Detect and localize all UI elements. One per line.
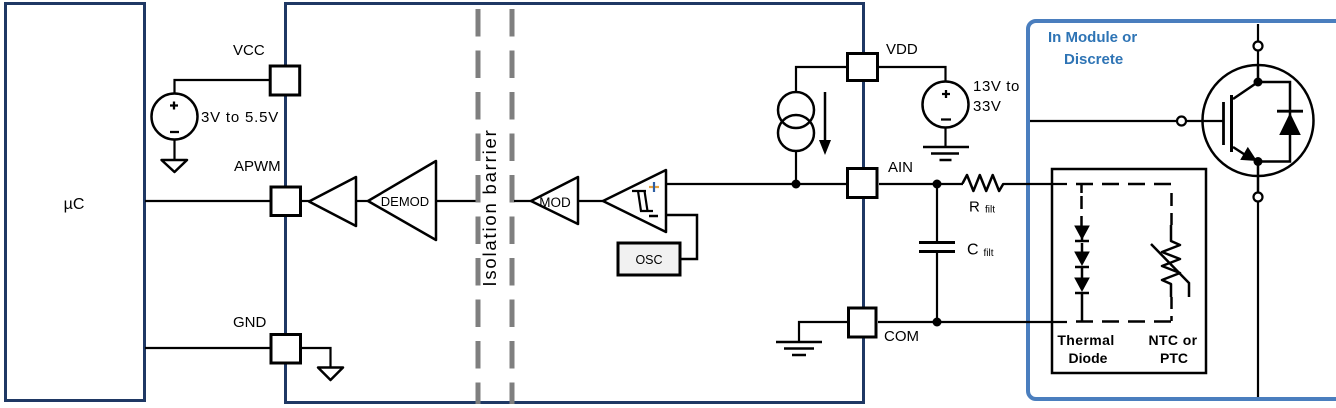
current source I1 [778, 92, 814, 128]
node collector junction [1254, 78, 1263, 87]
wire MOD to comparator [578, 200, 604, 202]
svg-text:filt: filt [985, 205, 995, 216]
thermal diode D3 [1075, 278, 1089, 291]
wire IGBT internal vertical [1257, 65, 1260, 193]
svg-text:MOD: MOD [539, 195, 571, 210]
svg-text:Isolation barrier: Isolation barrier [479, 128, 500, 286]
comparator U1 with hysteresis [603, 170, 666, 232]
svg-text:C: C [967, 242, 979, 259]
wire emitter terminal to bottom bus [1257, 202, 1259, 398]
wire VDD pin to source V2 [879, 67, 946, 82]
svg-text:DEMOD: DEMOD [381, 194, 429, 209]
wire V1 to ground [173, 140, 175, 161]
svg-text:In Module or: In Module or [1048, 29, 1137, 46]
node emitter junction [1254, 157, 1263, 166]
wire comparator plus input to AIN net [666, 183, 846, 185]
svg-text:Diode: Diode [1069, 350, 1108, 366]
wire collector node to freewheel diode [1258, 82, 1290, 162]
earth ground symbol (COM) [776, 342, 822, 355]
IGBT body bar [1230, 95, 1233, 152]
wire uC to APWM pin [145, 200, 270, 202]
earth ground symbol (V2) [923, 147, 969, 160]
svg-text:APWM: APWM [234, 158, 281, 175]
wire DEMOD to isolation barrier [436, 200, 476, 202]
svg-text:33V: 33V [973, 98, 1002, 115]
collector terminal circle [1254, 42, 1263, 51]
wire Cfilt to COM net [936, 252, 938, 323]
ground symbol (GND pin) [318, 368, 343, 381]
svg-text:Discrete: Discrete [1064, 51, 1123, 68]
NTC dashed lead bottom [1170, 297, 1173, 321]
isolation barrier dashed line right [510, 9, 515, 404]
resistor Rfilt [963, 175, 1004, 191]
IGBT emitter stroke with arrow [1233, 147, 1250, 158]
IGBT gate bar [1222, 102, 1225, 145]
pin COM [849, 308, 877, 337]
wire gate terminal to gate [1186, 120, 1223, 122]
thermal diode branch dashed lead [1080, 196, 1083, 226]
wire current source to AIN net [795, 151, 797, 184]
wire V2 to earth ground [944, 127, 946, 147]
emitter terminal circle [1254, 193, 1263, 202]
svg-text:VCC: VCC [233, 42, 265, 59]
node junction at current source output [792, 180, 801, 189]
gate terminal circle [1177, 117, 1186, 126]
wire Rfilt to thermal sensing box [1003, 183, 1067, 185]
svg-text:13V to: 13V to [973, 78, 1020, 95]
IGBT Q1 body circle [1203, 65, 1314, 176]
svg-text:AIN: AIN [888, 159, 913, 176]
hysteresis symbol [632, 191, 653, 211]
wire collector to top terminal [1257, 51, 1259, 65]
thermistor RT1 NTC or PTC [1162, 225, 1180, 297]
svg-text:NTC or: NTC or [1148, 332, 1197, 348]
svg-text:VDD: VDD [886, 41, 918, 58]
wire gate drive to IGBT [1030, 120, 1177, 122]
svg-text:PTC: PTC [1160, 350, 1188, 366]
wire thermal diode chain to bottom edge [1081, 226, 1084, 321]
plus input label [649, 186, 659, 188]
freewheel diode D5 [1277, 110, 1303, 113]
pin GND [271, 335, 301, 364]
isolation barrier dashed line left [476, 9, 481, 404]
pin AIN [848, 169, 878, 198]
svg-text:R: R [969, 199, 980, 216]
wire AIN node to Cfilt [936, 184, 938, 242]
dashed sensor outline bottom edge [1076, 320, 1172, 323]
wire uC to GND pin [145, 347, 270, 349]
svg-text:Thermal: Thermal [1057, 332, 1114, 348]
pin APWM [271, 187, 301, 216]
wire COM pin to thermal sensing box [878, 321, 1067, 323]
buffer amplifier A1 [309, 177, 356, 226]
demodulator amplifier DEMOD [368, 161, 436, 240]
isolated amplifier box [286, 4, 864, 403]
In Module or Discrete box [1028, 21, 1336, 399]
wire top terminal to bus [1257, 24, 1259, 42]
thermistor diagonal stroke [1151, 244, 1189, 297]
dashed sensor outline top edge [1076, 183, 1172, 186]
wire APWM pin to buffer [302, 200, 310, 202]
ground symbol (V1) [162, 160, 188, 172]
svg-text:filt: filt [984, 248, 994, 259]
svg-text:OSC: OSC [635, 253, 662, 267]
modulator amplifier MOD [531, 177, 578, 224]
svg-text:GND: GND [233, 314, 267, 331]
svg-text:COM: COM [884, 328, 919, 345]
wire VCC pin to source V1 [175, 80, 270, 94]
NTC dashed lead top [1170, 193, 1173, 225]
IGBT collector stroke [1233, 82, 1258, 99]
thermal sensing box [1052, 169, 1206, 373]
node junction COM / Cfilt [933, 318, 942, 327]
node junction AIN / Cfilt [933, 180, 942, 189]
pin VDD [848, 54, 878, 81]
wire VDD pin to current source [796, 67, 847, 92]
pin VCC [270, 66, 300, 95]
capacitor Cfilt [919, 243, 955, 252]
thermal diode D1 [1075, 226, 1089, 239]
wire GND pin to ground [302, 348, 331, 367]
oscillator OSC [618, 243, 680, 275]
wire COM pin to earth ground [799, 322, 847, 342]
current direction arrow [824, 92, 827, 142]
wire AIN pin to Rfilt [879, 183, 963, 185]
voltage source V1 3V to 5.5V [152, 94, 198, 140]
wire isolation barrier to MOD [514, 200, 532, 202]
minus input label [649, 215, 658, 218]
wire buffer to DEMOD [356, 200, 368, 202]
voltage source V2 13V to 33V [923, 82, 969, 128]
svg-text:3V to 5.5V: 3V to 5.5V [201, 109, 279, 126]
svg-text:µC: µC [64, 196, 85, 213]
wire comparator minus to OSC [666, 215, 697, 259]
thermal diode D2 [1075, 252, 1089, 265]
microcontroller box uC [6, 4, 145, 401]
